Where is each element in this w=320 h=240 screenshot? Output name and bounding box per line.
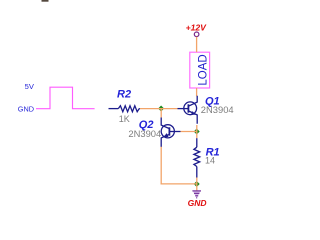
wire R1 bottom through node C to GND symbol: [196, 178, 198, 191]
svg-text:14: 14: [205, 155, 215, 165]
input pulse waveform annotation: [36, 87, 95, 109]
wire R2 to Q1 base: [140, 108, 178, 110]
ground symbol: [192, 191, 201, 198]
transistor Q1 (NPN): [178, 96, 198, 124]
svg-text:+12V: +12V: [186, 22, 208, 32]
resistor R1: [194, 138, 200, 177]
cropped mark at top edge: [42, 0, 49, 2]
wire Q2 emitter down to ground rail: [160, 147, 162, 185]
wire Q1 emitter to node B: [196, 125, 198, 132]
svg-text:2N3904: 2N3904: [201, 104, 234, 115]
svg-text:R2: R2: [117, 89, 131, 101]
node junction diamond A (R2 / Q1 base / Q2 collector): [158, 106, 164, 112]
wire ground rail horizontal: [161, 183, 197, 185]
node junction diamond B (Q1 emitter / Q2 base / R1 top): [194, 129, 200, 135]
load box LOAD: [190, 52, 210, 88]
svg-text:5V: 5V: [25, 82, 35, 91]
resistor R2: [109, 106, 141, 112]
transistor Q2 (NPN, mirrored): [161, 118, 180, 147]
svg-text:LOAD: LOAD: [197, 54, 209, 85]
svg-text:GND: GND: [18, 105, 34, 114]
node junction diamond C (R1 bottom / Q2 emitter / GND): [194, 181, 200, 187]
svg-text:2N3904: 2N3904: [128, 128, 161, 139]
svg-text:1K: 1K: [119, 114, 130, 124]
wire node A down to Q2 collector: [160, 109, 162, 118]
svg-text:GND: GND: [188, 198, 207, 208]
wire +12V terminal to LOAD: [196, 37, 198, 52]
+12V terminal circle: [194, 32, 199, 37]
wire LOAD to Q1 collector: [196, 88, 198, 96]
wire node B down to R1 top: [196, 132, 198, 139]
wire Q2 base to node B: [181, 131, 197, 133]
